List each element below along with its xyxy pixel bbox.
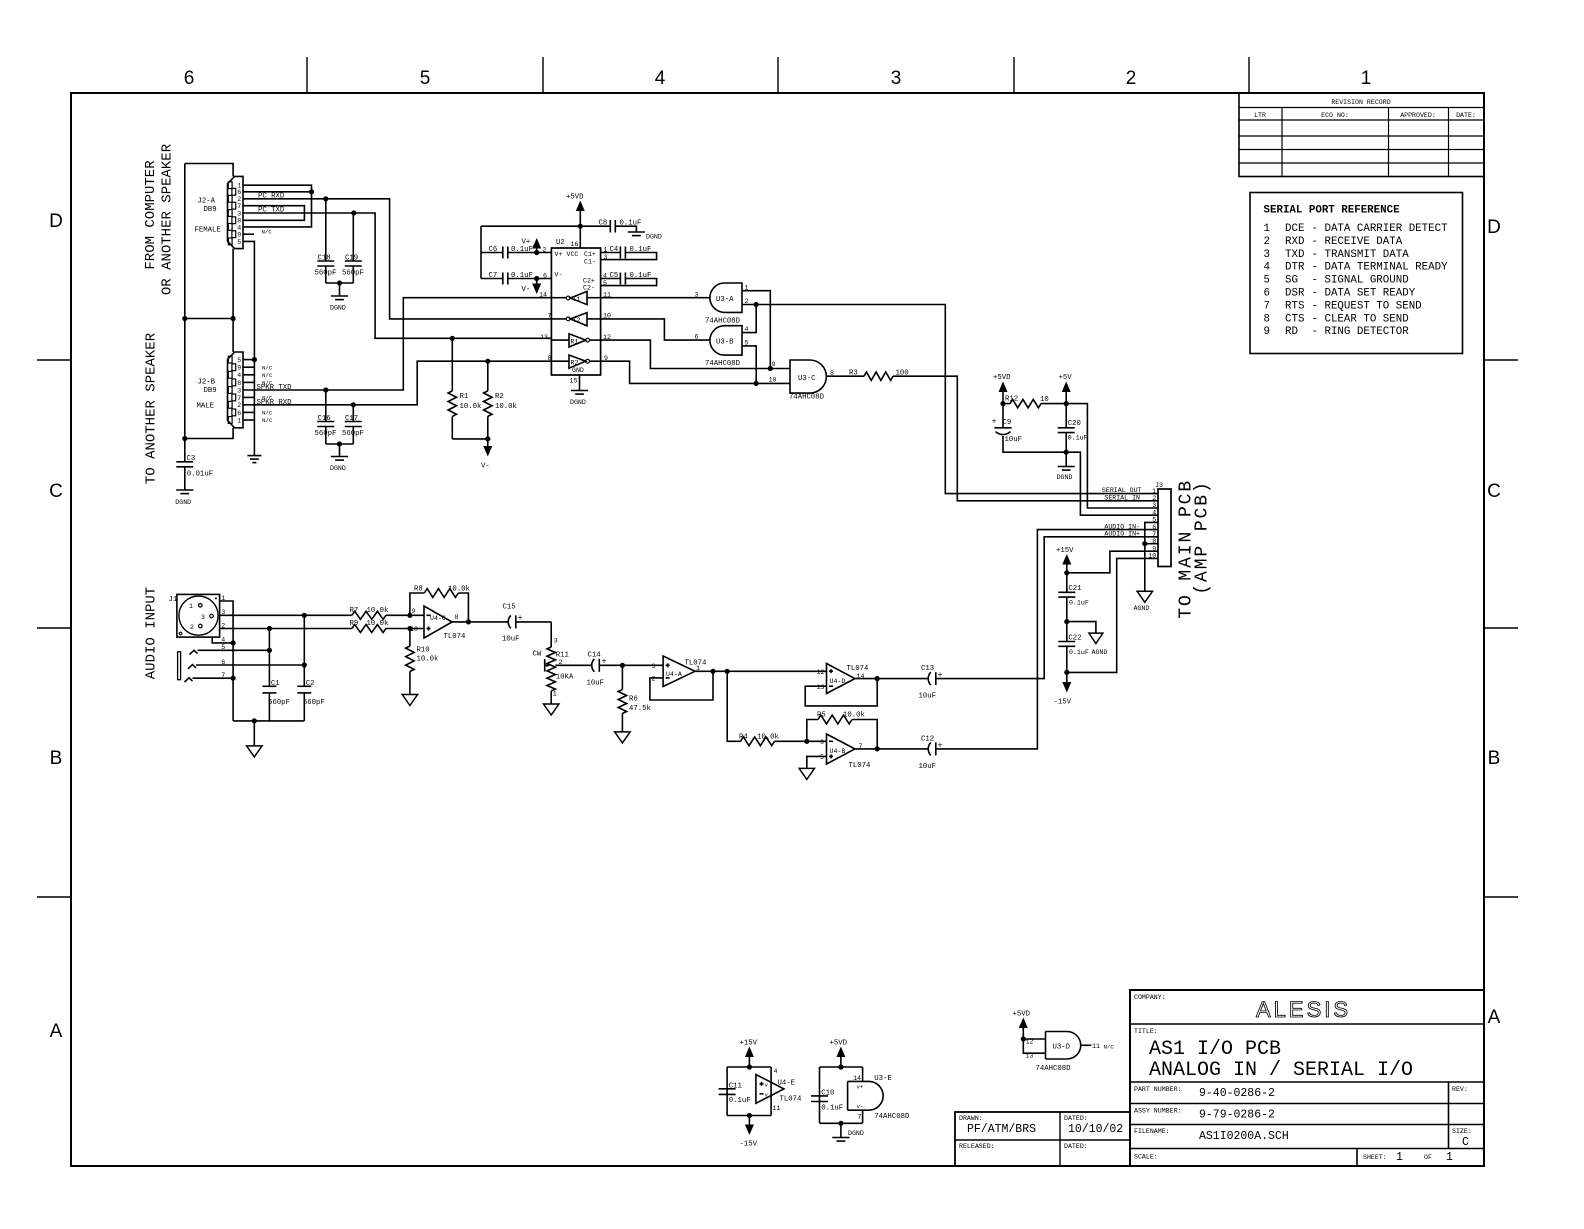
ground DGND under C16/C17 [330,444,348,472]
wire +15V to J3 pin9 [1067,551,1158,573]
svg-text:J1: J1 [169,596,178,604]
svg-text:AGND: AGND [1092,649,1108,656]
capacitor C6 0.1uF [481,246,551,259]
svg-text:R12: R12 [1005,396,1018,404]
svg-text:SERIAL OUT: SERIAL OUT [1102,487,1142,494]
node V+ [534,250,539,255]
svg-text:ASSY NUMBER:: ASSY NUMBER: [1134,1108,1181,1115]
resistor R8 10.0k feedback [410,586,471,622]
svg-text:15: 15 [570,378,578,385]
svg-text:- RECEIVE DATA: - RECEIVE DATA [1312,236,1403,248]
wires J2-B n/c stubs [243,367,254,420]
svg-text:U3-C: U3-C [798,375,816,383]
svg-text:10.0k: 10.0k [843,712,866,720]
svg-text:0.1uF: 0.1uF [620,220,642,228]
title block [1130,990,1484,1166]
svg-text:R1: R1 [460,393,469,401]
svg-text:9-40-0286-2: 9-40-0286-2 [1199,1087,1275,1100]
wire U3-D inputs [1023,1039,1045,1053]
svg-text:C20: C20 [1068,420,1081,428]
svg-text:C10: C10 [821,1089,834,1097]
wire C14 node to U4-A pin3 [622,664,663,666]
node pin6 tie [302,662,307,667]
node +5VD rail [578,224,583,229]
svg-text:9: 9 [237,232,241,239]
wire U4-A feedback loop [650,671,713,700]
ground DGND at U2 pin15 [570,391,588,407]
svg-text:4: 4 [1264,262,1270,274]
svg-text:- DATA SET READY: - DATA SET READY [1312,288,1416,300]
svg-text:N/C: N/C [262,410,273,417]
wire U3-A pin1 to pin9 row [742,284,770,368]
svg-text:B: B [1488,748,1501,769]
capacitor C1 560pF [262,680,290,721]
wire J3 pin5/pin8 AGND tie [1145,522,1158,543]
svg-text:5: 5 [745,340,749,347]
node +15V [1064,570,1069,575]
node U3-C pin9 [768,366,773,371]
capacitor C14 10uF [587,652,623,688]
capacitor C13 10uF [919,665,943,701]
capacitor C11 0.1uF [719,1082,751,1105]
wire U4-C output [452,621,508,623]
label AUDIO IN+ [1104,531,1140,538]
svg-text:DGND: DGND [646,234,662,241]
svg-text:U3-D: U3-D [1053,1044,1071,1052]
svg-text:2: 2 [1264,236,1270,248]
node shield bus right [231,316,236,321]
svg-text:- RING DETECTOR: - RING DETECTOR [1312,326,1410,338]
svg-text:7: 7 [548,313,552,320]
resistor R1 10.0k [448,338,482,439]
resistor R7 10.0k [350,607,425,619]
node R2 tap [485,359,490,364]
svg-text:14: 14 [539,291,547,298]
svg-text:RELEASED:: RELEASED: [959,1143,995,1150]
wire J1 pin1 ground leg [220,601,234,721]
svg-text:+5VD: +5VD [1013,1011,1031,1019]
node pin5 tie [267,648,272,653]
wire SPKR RXD net (J2-B pin2 to U2 pin8) [243,361,551,405]
svg-text:C8: C8 [599,220,608,228]
svg-text:FEMALE: FEMALE [195,227,221,235]
svg-text:R10: R10 [417,647,430,655]
capacitor C22 0.1uF [1058,622,1089,673]
svg-text:SCALE:: SCALE: [1134,1154,1158,1161]
wire U2 pin12 to U3-C pin9 [601,340,790,368]
node V- [534,276,539,281]
resistor R4 10.0k [739,734,827,746]
svg-text:6: 6 [237,189,241,196]
svg-text:6: 6 [820,739,824,746]
wire signal ground bus J2-A pin5 to J2-B pin5 [243,241,254,455]
wire U4-D output [855,678,928,680]
svg-text:R2: R2 [571,359,579,366]
svg-text:DSR: DSR [1285,288,1305,300]
svg-text:U3-B: U3-B [716,339,734,347]
svg-text:10.0k: 10.0k [757,734,780,742]
svg-text:C17: C17 [345,415,358,423]
svg-text:C21: C21 [1068,585,1082,593]
svg-text:6: 6 [1264,288,1270,300]
svg-text:SHEET:: SHEET: [1363,1154,1387,1161]
capacitor C17 560pF [342,405,364,444]
svg-text:4: 4 [237,224,241,231]
svg-text:10: 10 [769,376,777,383]
svg-text:5: 5 [237,239,241,246]
svg-text:PC TXD: PC TXD [258,207,285,215]
svg-text:U2: U2 [556,239,565,247]
svg-text:A: A [1488,1007,1501,1028]
wire U2 pin11 to U3-A output [601,291,710,298]
resistor R6 47.5k [618,665,651,732]
svg-text:(AMP PCB): (AMP PCB) [1193,480,1213,594]
node R1/R2 join [485,436,490,441]
svg-text:8: 8 [455,614,459,621]
ground AGND audio input [247,721,262,757]
svg-text:2: 2 [190,624,194,631]
op-amp U4-E power bypass TL074 [727,1067,802,1116]
svg-text:C22: C22 [1068,634,1081,642]
zone column numbers [184,68,1372,89]
svg-text:U4-B: U4-B [830,748,846,755]
svg-text:FILENAME:: FILENAME: [1134,1128,1170,1135]
wire J2-A shield bottom link [185,249,233,352]
capacitor C16 560pF [315,390,337,444]
svg-text:C2: C2 [306,680,315,688]
svg-text:3: 3 [237,210,241,217]
wire DGND to J3 pin4 [1066,452,1158,515]
svg-text:LTR: LTR [1254,112,1266,119]
svg-text:12: 12 [1026,1039,1034,1046]
svg-text:REVISION RECORD: REVISION RECORD [1331,99,1390,106]
svg-text:DGND: DGND [330,305,346,312]
svg-text:C6: C6 [489,246,498,254]
svg-text:74AHC08D: 74AHC08D [789,394,825,402]
node U4-E top [747,1064,752,1069]
node C18 tap [323,196,328,201]
node U4-B output feedback [875,746,880,751]
revision record table [1239,93,1484,177]
svg-text:560pF: 560pF [342,270,364,278]
svg-text:9: 9 [1264,326,1270,338]
svg-text:2: 2 [237,402,241,409]
svg-text:+15V: +15V [740,1040,758,1048]
svg-text:DATE:: DATE: [1456,112,1476,119]
svg-text:74AHC08D: 74AHC08D [1036,1065,1072,1073]
svg-text:0.1uF: 0.1uF [511,272,533,280]
svg-text:v+: v+ [857,1084,864,1091]
svg-text:2: 2 [543,247,547,254]
wire V+ branch left bus [480,226,482,278]
svg-text:C2+: C2+ [583,278,595,285]
wire U4-B pin5 to ground [807,756,827,768]
svg-text:-15V: -15V [1054,699,1072,707]
resistor R9 10.0k [350,620,425,632]
svg-text:- SIGNAL GROUND: - SIGNAL GROUND [1312,275,1409,287]
node U4-C non-inverting input [407,626,412,631]
svg-text:VCC: VCC [567,251,579,258]
label AUDIO INPUT [144,587,160,679]
label SERIAL IN [1104,495,1140,502]
svg-text:4: 4 [774,1068,778,1075]
ground AGND at J3 [1134,544,1153,612]
svg-text:DCE: DCE [1285,223,1304,235]
svg-text:10uF: 10uF [587,680,605,688]
svg-text:10uF: 10uF [919,763,937,771]
wire PC TXD net (J2-A pin3 to U2 pin13) [243,213,551,338]
wire C13 to J3 pin7 AUDIO IN+ [936,537,1158,679]
svg-text:RD: RD [1285,326,1298,338]
svg-text:10: 10 [1040,396,1049,404]
svg-text:- TRANSMIT DATA: - TRANSMIT DATA [1312,249,1410,261]
wire U4-A output to U4-D pin12 [695,670,827,672]
svg-text:8: 8 [237,380,241,387]
svg-text:1: 1 [1396,1151,1403,1164]
svg-text:C16: C16 [318,415,331,423]
wire +5VD rail [481,225,610,227]
wire J2-B shield bottom link [185,428,233,439]
svg-text:GND: GND [572,367,584,374]
svg-text:10KA: 10KA [556,674,574,682]
wire U3-A pin2 SERIAL OUT net to J3 pin1 [742,298,1158,494]
svg-text:9: 9 [412,608,416,615]
svg-text:5: 5 [820,754,824,761]
capacitor C5 0.1uF flying cap C2 [601,272,657,286]
node U3-E bottom [838,1121,843,1126]
svg-text:0.1uF: 0.1uF [1069,649,1089,656]
wire U2 pin9 to U3-C pin10 [601,361,790,383]
svg-text:SERIAL IN: SERIAL IN [1104,495,1140,502]
wire C2 vertical [303,615,305,686]
wire branch down to R4 [727,671,740,741]
svg-text:REV:: REV: [1452,1086,1468,1093]
svg-text:C12: C12 [921,735,934,743]
power +5VD arrow above U2 [566,194,585,227]
power +5VD arrow at R12 [993,374,1011,404]
svg-text:- DATA CARRIER DETECT: - DATA CARRIER DETECT [1312,223,1449,235]
svg-text:B: B [50,748,63,769]
svg-text:D: D [1487,217,1501,238]
potentiometer R11 10KA [533,647,574,704]
wire U3-C output [826,370,864,377]
ground DGND under C3 [175,490,193,506]
wire C1 vertical [268,629,270,687]
capacitor C4 0.1uF flying cap C1 [601,246,657,260]
svg-text:-15V: -15V [740,1141,758,1149]
svg-text:A: A [50,1021,63,1042]
svg-text:13: 13 [817,684,825,691]
svg-text:T1: T1 [573,296,581,303]
capacitor C7 0.1uF [481,272,551,285]
svg-text:9-79-0286-2: 9-79-0286-2 [1199,1109,1275,1122]
svg-text:ALESIS: ALESIS [1256,997,1351,1022]
wire left shield bus [184,164,186,462]
svg-text:TL074: TL074 [780,1096,803,1104]
svg-text:3: 3 [695,291,699,298]
wire U3-A pin2 to U3-B pin4 [742,305,756,334]
svg-text:T2: T2 [573,317,581,324]
svg-text:10.0k: 10.0k [367,607,390,615]
ground at U4-B pin5 [799,768,814,779]
svg-text:3: 3 [652,663,656,670]
zone row letters right [1487,217,1501,1028]
svg-text:9: 9 [237,365,241,372]
svg-text:U3-E: U3-E [874,1075,892,1083]
wire jack ring pin6 [196,664,304,666]
phone jack symbol [178,650,198,682]
svg-text:C1: C1 [271,680,280,688]
svg-text:4: 4 [1152,509,1156,516]
svg-text:C5: C5 [610,272,619,280]
svg-text:CW: CW [533,651,542,659]
wire audio ground bus [233,720,304,722]
gate U3-D 74AHC08D spare [1026,1032,1081,1074]
label AUDIO IN- [1104,523,1140,530]
svg-text:TITLE:: TITLE: [1134,1028,1158,1035]
label SERIAL OUT [1102,487,1142,494]
svg-text:R3: R3 [849,370,858,378]
capacitor C9 10uF polarized [992,404,1067,453]
label FROM COMPUTER OR ANOTHER SPEAKER [143,143,176,295]
svg-text:0.1uF: 0.1uF [630,246,652,254]
wire R3 to J3 pin2 SERIAL IN net [893,376,1158,501]
svg-text:12: 12 [817,669,825,676]
svg-text:J2-B: J2-B [198,379,216,387]
sheet border frame [71,93,1484,1166]
label PC TXD [258,207,285,215]
U2 internal driver T1 [551,291,600,304]
power +5VD arrow at U3-E [830,1040,848,1068]
svg-text:FROM COMPUTER: FROM COMPUTER [143,160,159,270]
wire shield top to J2-A [185,164,233,177]
svg-text:AS1I0200A.SCH: AS1I0200A.SCH [1199,1130,1289,1143]
svg-text:+5V: +5V [1059,374,1073,382]
svg-text:10uF: 10uF [502,636,520,644]
svg-text:47.5k: 47.5k [629,705,652,713]
wire U4-B output [855,748,928,750]
wire J2-A pin7-pin8 loopback [243,206,304,221]
svg-text:11: 11 [1092,1043,1100,1050]
node U4-D feedback [875,676,880,681]
title text [1134,994,1413,1082]
resistor R10 10.0k [406,629,439,695]
capacitor C21 0.1uF [1058,573,1089,622]
svg-text:PC RXD: PC RXD [258,192,285,200]
svg-text:OF: OF [1424,1154,1432,1161]
svg-text:COMPANY:: COMPANY: [1134,994,1166,1001]
wire U3-B pin5 to pin10 row [742,340,756,384]
capacitor C18 560pF [315,199,337,283]
node pin4 tie [231,640,236,645]
svg-text:0.1uF: 0.1uF [511,246,533,254]
power +15V arrow at U4-E [740,1040,758,1068]
svg-text:R7: R7 [350,607,359,615]
svg-text:0.01uF: 0.01uF [187,470,213,478]
svg-text:N/C: N/C [262,395,273,402]
svg-text:74AHC08D: 74AHC08D [705,318,741,326]
node C19 tap [351,210,356,215]
node shield bus left [182,316,187,321]
wire R11 wiper to C14 [555,664,591,666]
svg-text:10uF: 10uF [1005,436,1023,444]
node shield bottom [182,436,187,441]
wire J1 pin4 link [212,637,233,643]
capacitor C12 10uF [919,735,943,771]
svg-text:DATED:: DATED: [1064,1115,1088,1122]
ground at R10 [402,695,417,706]
svg-text:10.0k: 10.0k [367,620,390,628]
gate U3-C 74AHC08D [789,360,826,402]
svg-text:C: C [1487,481,1501,502]
serial port reference note box [1250,193,1463,354]
node C14 / R6 / U4-A [620,663,625,668]
svg-text:DB9: DB9 [204,206,217,214]
assy number row [1134,1108,1275,1122]
power +15V arrow at C21 [1056,547,1074,573]
label N/C pin9 [262,229,273,236]
svg-text:4: 4 [237,372,241,379]
node C17 tap [351,402,356,407]
svg-text:DATED:: DATED: [1064,1143,1088,1150]
svg-text:3: 3 [554,638,558,645]
svg-text:R8: R8 [414,586,423,594]
svg-text:8: 8 [1264,313,1270,325]
node C16/C17 join [337,441,342,446]
svg-text:C13: C13 [921,665,934,673]
connector J3 to main PCB [1148,482,1171,567]
wire C15 to R11 top [551,622,558,647]
svg-text:6: 6 [543,273,547,280]
svg-text:5: 5 [237,357,241,364]
svg-text:5: 5 [1264,275,1270,287]
wire C16/C17 join [326,443,354,445]
svg-text:U3-A: U3-A [716,296,734,304]
svg-text:N/C: N/C [262,372,273,379]
svg-text:R6: R6 [629,696,638,704]
ground DGND at U3-E [832,1123,864,1141]
node C21/C22 mid [1064,619,1069,624]
wire J2-B pin5 stub [243,359,254,361]
svg-text:1: 1 [1264,223,1270,235]
svg-text:560pF: 560pF [315,430,337,438]
svg-text:N/C: N/C [262,364,273,371]
node +5V [1064,401,1069,406]
svg-text:C11: C11 [729,1082,743,1090]
svg-text:2: 2 [1152,495,1156,502]
svg-text:ECO NO:: ECO NO: [1321,112,1349,119]
svg-text:560pF: 560pF [303,699,325,707]
resistor R12 10 [1003,396,1066,408]
svg-text:10.0k: 10.0k [448,586,471,594]
svg-text:+: + [518,613,523,623]
svg-text:1: 1 [189,603,193,610]
power -15V arrow [1054,672,1072,706]
node U3-C pin10 [754,381,759,386]
svg-text:TO ANOTHER SPEAKER: TO ANOTHER SPEAKER [144,332,160,484]
svg-text:1: 1 [1446,1151,1453,1164]
label TO MAIN PCB (AMP PCB) [1177,479,1213,619]
wire +5V to J3 pin3 [1066,404,1158,508]
power +5VD arrow at U3-D [1013,1011,1031,1040]
svg-text:3: 3 [237,387,241,394]
svg-text:U4-D: U4-D [830,678,846,685]
gate U3-A 74AHC08D (mirrored AND) [705,283,742,326]
wire J1 pin2 row [220,628,352,630]
chassis ground SG [247,456,261,463]
J1 pin row labels [221,595,225,679]
svg-text:v-: v- [857,1103,864,1110]
